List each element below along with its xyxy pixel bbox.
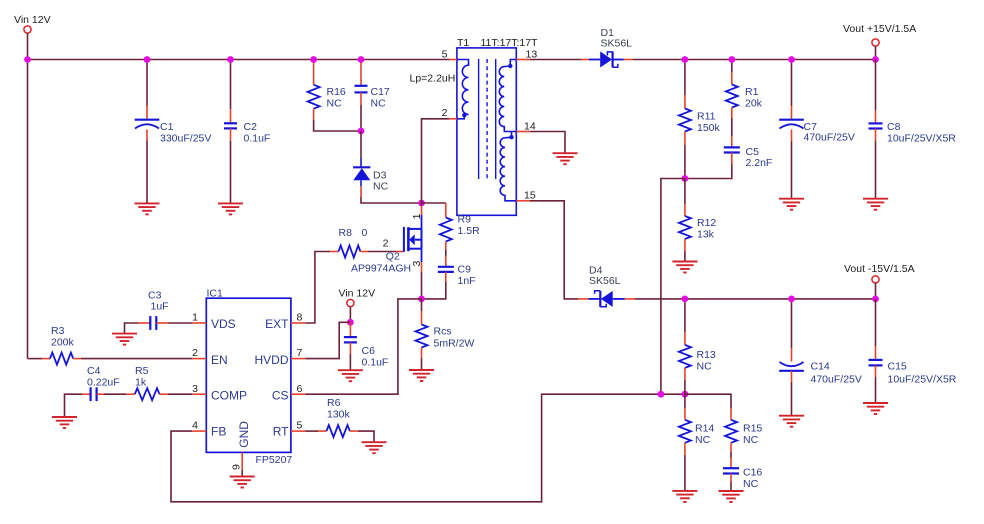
svg-text:8: 8 — [297, 312, 303, 324]
capacitor C9 1nF — [445, 250, 447, 256]
svg-text:Vout +15V/1.5A: Vout +15V/1.5A — [843, 23, 916, 35]
svg-text:C14: C14 — [811, 361, 830, 373]
svg-text:C17: C17 — [371, 86, 390, 98]
svg-text:NC: NC — [327, 98, 343, 110]
svg-text:0.1uF: 0.1uF — [244, 133, 271, 145]
junction Vin rail left — [24, 56, 31, 63]
T1 pin 13 — [516, 59, 530, 61]
wire R16 bottom to node — [314, 120, 361, 131]
svg-text:1k: 1k — [135, 376, 147, 388]
svg-text:Vout -15V/1.5A: Vout -15V/1.5A — [844, 263, 915, 275]
svg-text:C8: C8 — [887, 121, 901, 133]
svg-text:C2: C2 — [244, 121, 258, 133]
wire -15V output rail — [635, 298, 876, 300]
resistor R5 1k — [126, 393, 135, 395]
svg-text:NC: NC — [743, 434, 759, 446]
pin 6 CS — [291, 393, 305, 395]
svg-text:C9: C9 — [458, 264, 472, 276]
svg-text:200k: 200k — [51, 337, 75, 349]
diode D3 NC — [360, 158, 362, 167]
svg-text:C1: C1 — [160, 121, 174, 133]
diode D1 SK56L — [589, 59, 600, 61]
T1 secondary winding pin14-pin15 — [500, 132, 516, 201]
svg-text:5mR/2W: 5mR/2W — [434, 338, 475, 350]
svg-text:C16: C16 — [743, 467, 762, 479]
svg-text:20k: 20k — [745, 98, 763, 110]
node Vout -15V/1.5A terminal — [872, 276, 879, 283]
ground C8 — [863, 198, 888, 200]
svg-text:7: 7 — [297, 347, 303, 359]
svg-text:0.22uF: 0.22uF — [87, 376, 120, 388]
wire left vertical Vin bus — [27, 60, 29, 359]
T1 pin 2 — [449, 118, 457, 120]
wire Vout- terminal drop — [875, 283, 877, 299]
svg-text:R11: R11 — [697, 111, 716, 123]
svg-text:150k: 150k — [697, 122, 721, 134]
wire C5 bottom to divider node — [685, 164, 732, 179]
resistor R8 0 — [330, 251, 339, 253]
transistor Q2 AP9974AGH — [403, 227, 405, 252]
svg-text:10uF/25V/X5R: 10uF/25V/X5R — [887, 133, 956, 145]
capacitor C7 470uF/25V — [791, 60, 793, 107]
ground C1 — [135, 202, 160, 204]
svg-text:Vin 12V: Vin 12V — [14, 14, 51, 26]
pin 7 HVDD — [291, 358, 305, 360]
capacitor C16 NC — [730, 452, 732, 458]
svg-text:EXT: EXT — [265, 317, 289, 331]
svg-text:130k: 130k — [327, 409, 351, 421]
svg-text:330uF/25V: 330uF/25V — [160, 133, 211, 145]
svg-text:R13: R13 — [697, 349, 716, 361]
junction Vout- — [872, 296, 879, 303]
wire T1 pin14 to ground — [530, 132, 565, 154]
wire R5 to COMP pin — [168, 393, 192, 395]
wire FB feedback loop — [171, 394, 661, 502]
resistor R11 150k — [684, 60, 686, 96]
svg-text:AP9974AGH: AP9974AGH — [351, 263, 411, 275]
resistor R15 NC — [730, 408, 732, 420]
junction C2 top — [227, 56, 234, 63]
svg-text:R1: R1 — [745, 86, 759, 98]
wire C9 bottom to source node — [422, 282, 446, 299]
pin 4 FB — [192, 430, 206, 432]
capacitor C15 10uF/25V/X5R — [875, 299, 877, 346]
svg-text:FP5207: FP5207 — [256, 454, 293, 466]
junction C14 top — [788, 296, 795, 303]
diode D4 SK56L — [589, 298, 601, 300]
svg-text:COMP: COMP — [211, 389, 247, 403]
svg-text:0: 0 — [362, 227, 368, 239]
svg-text:C4: C4 — [87, 365, 101, 377]
wire current sense to CS pin — [305, 299, 421, 394]
resistor R9 1.5R — [445, 203, 447, 218]
svg-text:R6: R6 — [327, 397, 341, 409]
svg-text:Rcs: Rcs — [434, 326, 452, 338]
junction divider node — [682, 175, 689, 182]
wire Vin terminal to rail — [27, 33, 29, 59]
resistor R1 20k — [731, 60, 733, 73]
wire RT pin to R6 — [305, 430, 318, 432]
ground C15 — [863, 402, 888, 404]
junction C7 top — [788, 56, 795, 63]
wire node to D3 — [360, 131, 362, 158]
wire D3 to drain node — [361, 197, 422, 203]
svg-text:10uF/25V/X5R: 10uF/25V/X5R — [888, 374, 957, 386]
wire drain node to R9 — [422, 202, 446, 204]
resistor Rcs 5mR/2W — [421, 299, 423, 311]
capacitor C2 0.1uF — [230, 60, 232, 110]
svg-text:R9: R9 — [458, 214, 472, 226]
ground C4 — [52, 416, 77, 418]
wire C3 to VDS pin — [168, 322, 192, 324]
transformer T1 11T:17T:17T — [457, 48, 516, 215]
svg-text:EN: EN — [211, 353, 228, 367]
wire R3 to EN pin — [81, 358, 192, 360]
svg-text:SK56L: SK56L — [589, 275, 621, 287]
svg-text:1uF: 1uF — [151, 301, 169, 313]
resistor R14 NC — [684, 394, 686, 408]
node Vin 12V terminal (HVDD) — [347, 299, 354, 306]
capacitor C4 0.22uF — [82, 393, 91, 395]
node Vin 12V terminal (top left) — [24, 26, 31, 33]
junction C1 top — [144, 56, 151, 63]
svg-text:R16: R16 — [327, 86, 346, 98]
node Vout +15V/1.5A terminal — [872, 39, 879, 46]
svg-text:GND: GND — [237, 421, 251, 448]
capacitor C14 470uF/25V — [791, 299, 793, 348]
svg-text:5: 5 — [297, 420, 303, 432]
svg-text:2: 2 — [192, 347, 198, 359]
T1 primary winding pin5-pin2 — [457, 60, 469, 119]
T1 pin 5 — [449, 59, 457, 61]
ground IC1 pin9 — [230, 476, 255, 478]
ground R14 — [672, 490, 697, 492]
wire R8 to Q2 gate — [368, 251, 396, 253]
wire top input rail — [28, 59, 450, 61]
svg-text:Vin 12V: Vin 12V — [339, 288, 376, 300]
wire Q2 drain — [421, 206, 423, 215]
svg-text:SK56L: SK56L — [601, 38, 633, 50]
T1 core — [478, 59, 480, 179]
capacitor C17 NC — [360, 60, 362, 86]
T1 secondary winding pin13-pin14 — [499, 60, 516, 132]
wire divider node to feedback drop — [661, 179, 685, 395]
svg-text:R12: R12 — [697, 217, 716, 229]
junction feedback node A — [658, 391, 665, 398]
T1 pin 14 — [516, 131, 530, 133]
svg-text:15: 15 — [524, 190, 536, 202]
capacitor C1 330uF/25V — [146, 60, 148, 107]
svg-text:470uF/25V: 470uF/25V — [804, 132, 855, 144]
svg-text:2: 2 — [442, 107, 448, 119]
wire +15V output rail — [633, 59, 876, 61]
svg-text:NC: NC — [697, 361, 713, 373]
ground C2 — [218, 202, 243, 204]
ground R6 — [362, 441, 387, 443]
wire C3 to ground — [125, 323, 139, 334]
capacitor C3 1uF — [138, 322, 150, 324]
wire Q2 source — [421, 262, 423, 272]
wire T1 pin15 to D4 — [530, 201, 578, 299]
svg-text:9: 9 — [231, 464, 243, 470]
resistor R12 13k — [684, 179, 686, 205]
svg-text:VDS: VDS — [211, 317, 236, 331]
junction snubber node — [358, 128, 365, 135]
wire Vout+ terminal drop — [875, 46, 877, 59]
capacitor C8 10uF/25V/X5R — [875, 60, 877, 111]
svg-text:NC: NC — [695, 434, 711, 446]
svg-text:IC1: IC1 — [207, 288, 224, 300]
pin 1 VDS — [192, 322, 206, 324]
wire T1 pin13 to D1 — [530, 59, 581, 61]
pin 8 EXT — [291, 322, 305, 324]
svg-text:13k: 13k — [697, 229, 715, 241]
junction drain node — [418, 200, 425, 207]
svg-text:R14: R14 — [695, 423, 714, 435]
ground T1 pin14 — [553, 152, 578, 154]
svg-text:C6: C6 — [362, 345, 376, 357]
svg-text:T1: T1 — [457, 37, 469, 49]
T1 pin 15 — [516, 200, 530, 202]
junction R1 top — [728, 56, 735, 63]
svg-text:2: 2 — [383, 238, 389, 250]
svg-text:2.2nF: 2.2nF — [746, 157, 773, 169]
svg-text:0.1uF: 0.1uF — [362, 357, 389, 369]
ground C7 — [779, 198, 804, 200]
svg-text:R8: R8 — [339, 227, 353, 239]
svg-text:1.5R: 1.5R — [458, 225, 481, 237]
wire R6 to ground — [358, 431, 374, 442]
svg-text:470uF/25V: 470uF/25V — [811, 374, 862, 386]
junction Vout+ — [872, 56, 879, 63]
capacitor C6 0.1uF — [349, 322, 351, 337]
junction R16 top — [310, 56, 317, 63]
ground C3 — [112, 333, 137, 335]
svg-text:R3: R3 — [51, 325, 65, 337]
svg-text:CS: CS — [272, 389, 289, 403]
svg-text:NC: NC — [373, 181, 389, 193]
ground C6 — [338, 369, 363, 371]
wire HVDD node to HVDD pin — [305, 322, 350, 358]
svg-text:1: 1 — [192, 312, 198, 324]
resistor R16 NC — [313, 60, 315, 85]
svg-text:Q2: Q2 — [386, 251, 400, 263]
capacitor C5 2.2nF — [731, 118, 733, 136]
junction C17 top — [358, 56, 365, 63]
wire C4 to ground — [65, 394, 83, 417]
svg-text:1nF: 1nF — [458, 275, 476, 287]
svg-text:R5: R5 — [135, 365, 149, 377]
svg-text:FB: FB — [211, 425, 226, 439]
svg-text:R15: R15 — [743, 423, 762, 435]
svg-text:Lp=2.2uH: Lp=2.2uH — [410, 73, 456, 85]
svg-text:HVDD: HVDD — [254, 353, 288, 367]
junction feedback node B — [682, 391, 689, 398]
svg-text:3: 3 — [192, 383, 198, 395]
pin 5 RT — [291, 430, 305, 432]
wire Vin2 to junction — [349, 307, 351, 323]
junction source node — [418, 296, 425, 303]
svg-text:NC: NC — [371, 98, 387, 110]
resistor R13 NC — [684, 299, 686, 332]
svg-text:C15: C15 — [888, 361, 907, 373]
svg-text:11T:17T:17T: 11T:17T:17T — [481, 37, 539, 49]
svg-text:6: 6 — [297, 383, 303, 395]
pin 3 COMP — [192, 393, 206, 395]
wire node to R15 — [685, 394, 731, 408]
ground C14 — [779, 415, 804, 417]
wire C4 to R5 — [104, 393, 126, 395]
wire feedback node row — [661, 393, 685, 395]
junction R11 top — [682, 56, 689, 63]
svg-text:RT: RT — [273, 425, 289, 439]
svg-text:D3: D3 — [373, 169, 387, 181]
pin 2 EN — [192, 358, 206, 360]
wire C17 bottom to node — [360, 105, 362, 131]
ground R12 — [672, 261, 697, 263]
junction R13 top — [682, 296, 689, 303]
svg-text:4: 4 — [192, 420, 198, 432]
svg-text:5: 5 — [442, 49, 448, 61]
junction HVDD node — [347, 319, 354, 326]
ground Rcs — [409, 369, 434, 371]
svg-text:NC: NC — [743, 478, 759, 490]
wire EXT pin to R8 — [305, 252, 330, 324]
wire drain node to T1 pin2 — [422, 119, 450, 203]
resistor R6 130k — [318, 430, 327, 432]
ground C16 — [719, 490, 744, 492]
op-amp U1 IC1 FP5207 controller — [206, 298, 291, 452]
resistor R3 200k — [28, 358, 43, 360]
